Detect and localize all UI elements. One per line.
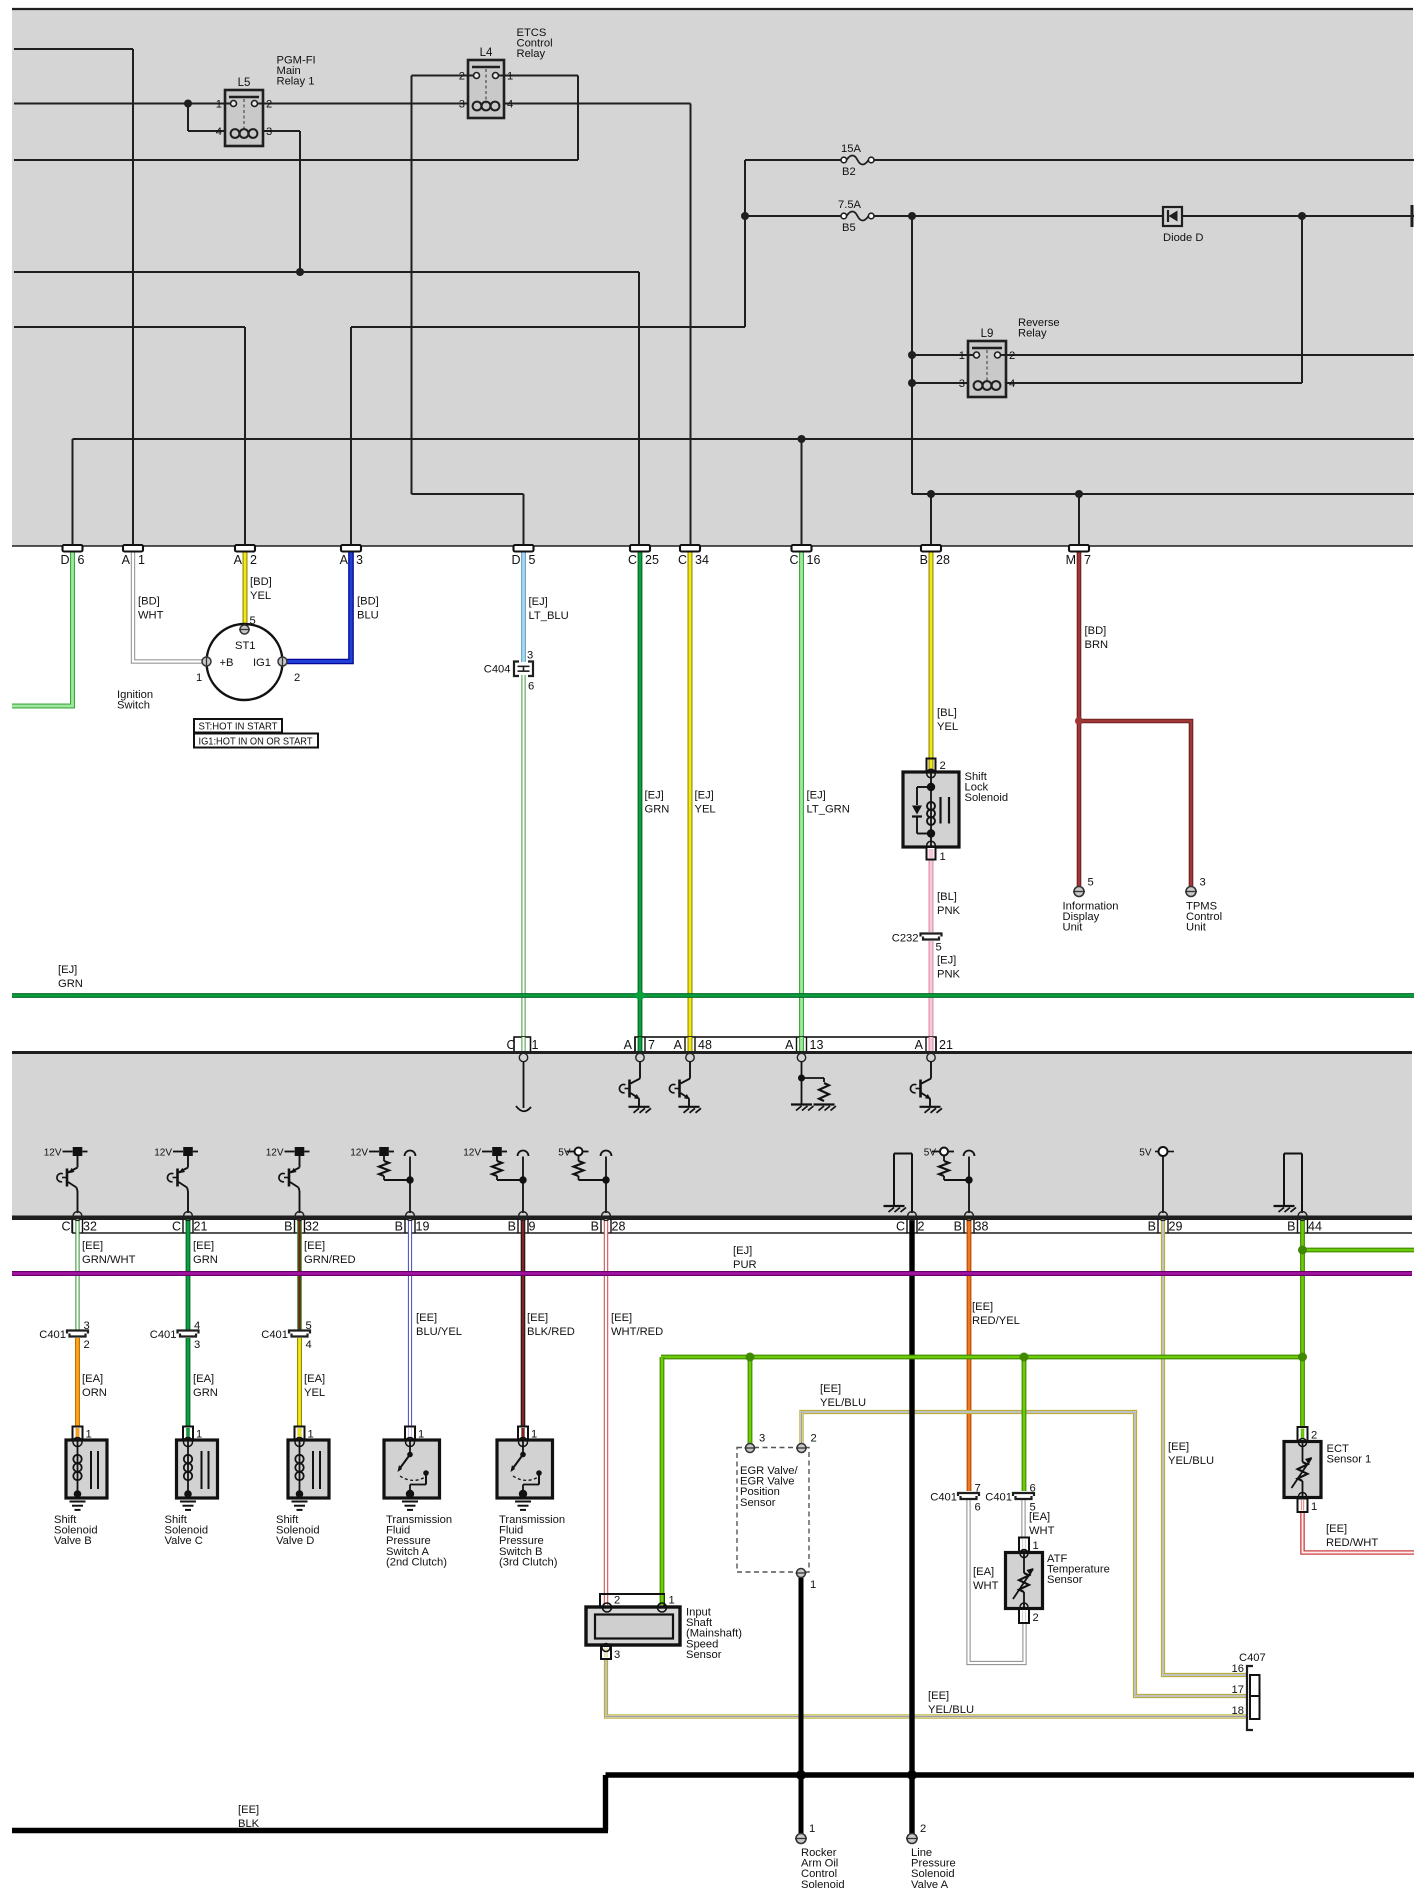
- svg-text:LT_GRN: LT_GRN: [807, 804, 850, 816]
- svg-text:5: 5: [529, 553, 536, 567]
- svg-text:[EJ]: [EJ]: [937, 955, 956, 967]
- svg-text:3: 3: [194, 1339, 200, 1351]
- svg-text:[EJ]: [EJ]: [733, 1245, 752, 1257]
- svg-text:32: 32: [305, 1220, 319, 1234]
- svg-text:Unit: Unit: [1063, 922, 1084, 934]
- svg-text:C: C: [61, 1220, 70, 1234]
- svg-text:Relay 1: Relay 1: [277, 76, 315, 88]
- svg-text:1: 1: [809, 1823, 815, 1835]
- svg-text:B5: B5: [842, 222, 856, 234]
- svg-text:2: 2: [811, 1433, 817, 1445]
- svg-text:YEL/BLU: YEL/BLU: [928, 1704, 974, 1716]
- svg-text:YEL/BLU: YEL/BLU: [1168, 1455, 1214, 1467]
- svg-text:4: 4: [194, 1320, 200, 1332]
- svg-text:C: C: [896, 1220, 905, 1234]
- svg-text:[BL]: [BL]: [937, 707, 957, 719]
- svg-text:[BD]: [BD]: [357, 596, 379, 608]
- svg-text:16: 16: [1232, 1663, 1244, 1675]
- svg-text:YEL: YEL: [250, 590, 271, 602]
- svg-text:1: 1: [196, 672, 202, 684]
- svg-text:GRN: GRN: [645, 804, 670, 816]
- svg-text:18: 18: [1232, 1705, 1244, 1717]
- svg-text:[EJ]: [EJ]: [645, 790, 664, 802]
- svg-text:IG1: IG1: [253, 657, 271, 669]
- svg-text:25: 25: [645, 553, 659, 567]
- svg-text:WHT: WHT: [138, 610, 164, 622]
- svg-text:BLK/RED: BLK/RED: [527, 1326, 575, 1338]
- svg-text:6: 6: [78, 553, 85, 567]
- svg-text:(3rd Clutch): (3rd Clutch): [499, 1556, 558, 1568]
- svg-text:12V: 12V: [44, 1148, 62, 1159]
- svg-text:D: D: [60, 553, 69, 567]
- svg-text:12V: 12V: [154, 1148, 172, 1159]
- svg-text:19: 19: [416, 1220, 430, 1234]
- svg-text:2: 2: [459, 71, 465, 83]
- svg-text:Sensor 1: Sensor 1: [1327, 1454, 1372, 1466]
- svg-text:[BD]: [BD]: [250, 576, 272, 588]
- svg-text:Sensor: Sensor: [740, 1497, 776, 1509]
- svg-text:5V: 5V: [924, 1148, 937, 1159]
- svg-text:C: C: [172, 1220, 181, 1234]
- svg-text:4: 4: [306, 1339, 312, 1351]
- svg-text:C401: C401: [150, 1329, 177, 1341]
- svg-text:Sensor: Sensor: [1047, 1574, 1083, 1586]
- svg-text:2: 2: [1311, 1430, 1317, 1442]
- svg-text:[EJ]: [EJ]: [695, 790, 714, 802]
- svg-text:Valve C: Valve C: [165, 1535, 203, 1547]
- svg-text:5: 5: [1030, 1502, 1036, 1514]
- svg-text:WHT: WHT: [1029, 1525, 1055, 1537]
- svg-text:B: B: [591, 1220, 599, 1234]
- svg-text:+B: +B: [220, 657, 234, 669]
- svg-text:[EE]: [EE]: [304, 1240, 325, 1252]
- svg-text:WHT: WHT: [973, 1580, 999, 1592]
- svg-text:Switch: Switch: [117, 700, 150, 712]
- svg-text:WHT/RED: WHT/RED: [611, 1326, 663, 1338]
- svg-text:13: 13: [810, 1038, 824, 1052]
- svg-text:GRN/RED: GRN/RED: [304, 1254, 356, 1266]
- svg-text:3: 3: [356, 553, 363, 567]
- svg-text:YEL/BLU: YEL/BLU: [820, 1397, 866, 1409]
- svg-text:3: 3: [527, 650, 533, 662]
- svg-text:C: C: [678, 553, 687, 567]
- svg-text:Valve D: Valve D: [276, 1535, 314, 1547]
- svg-text:2: 2: [266, 99, 272, 111]
- svg-text:RED/WHT: RED/WHT: [1326, 1537, 1378, 1549]
- svg-text:[EA]: [EA]: [304, 1373, 325, 1385]
- svg-text:ORN: ORN: [82, 1387, 107, 1399]
- svg-text:7.5A: 7.5A: [838, 199, 862, 211]
- svg-text:2: 2: [250, 553, 257, 567]
- svg-text:L5: L5: [238, 77, 251, 89]
- svg-text:12V: 12V: [463, 1148, 481, 1159]
- svg-text:44: 44: [1308, 1220, 1322, 1234]
- svg-text:Solenoid: Solenoid: [801, 1879, 845, 1891]
- svg-text:Unit: Unit: [1186, 922, 1207, 934]
- svg-text:[EE]: [EE]: [82, 1240, 103, 1252]
- svg-text:ST:HOT IN START: ST:HOT IN START: [199, 722, 278, 733]
- svg-text:21: 21: [939, 1038, 953, 1052]
- svg-text:15A: 15A: [841, 143, 861, 155]
- svg-text:C401: C401: [39, 1329, 66, 1341]
- svg-text:6: 6: [975, 1502, 981, 1514]
- svg-text:1: 1: [1311, 1501, 1317, 1513]
- svg-text:GRN/WHT: GRN/WHT: [82, 1254, 136, 1266]
- svg-text:2: 2: [1033, 1612, 1039, 1624]
- svg-text:17: 17: [1232, 1684, 1244, 1696]
- svg-text:BRN: BRN: [1085, 639, 1109, 651]
- svg-text:A: A: [915, 1038, 924, 1052]
- svg-text:(2nd Clutch): (2nd Clutch): [386, 1556, 447, 1568]
- svg-text:GRN: GRN: [193, 1387, 218, 1399]
- svg-text:Relay: Relay: [1018, 328, 1047, 340]
- svg-text:LT_BLU: LT_BLU: [529, 610, 569, 622]
- svg-text:3: 3: [266, 126, 272, 138]
- svg-text:[EE]: [EE]: [527, 1312, 548, 1324]
- svg-text:A: A: [785, 1038, 794, 1052]
- svg-text:B: B: [395, 1220, 403, 1234]
- svg-text:9: 9: [529, 1220, 536, 1234]
- svg-text:Solenoid: Solenoid: [965, 792, 1009, 804]
- svg-text:[EA]: [EA]: [82, 1373, 103, 1385]
- svg-text:A: A: [340, 553, 349, 567]
- svg-text:PNK: PNK: [937, 905, 961, 917]
- svg-text:2: 2: [294, 672, 300, 684]
- svg-text:4: 4: [216, 126, 222, 138]
- svg-text:B: B: [284, 1220, 292, 1234]
- svg-text:3: 3: [959, 378, 965, 390]
- svg-text:1: 1: [507, 71, 513, 83]
- svg-text:C: C: [789, 553, 798, 567]
- svg-text:2: 2: [918, 1220, 925, 1234]
- svg-text:5: 5: [250, 615, 256, 627]
- svg-text:C401: C401: [261, 1329, 288, 1341]
- svg-text:16: 16: [807, 553, 821, 567]
- svg-text:4: 4: [1009, 378, 1015, 390]
- svg-text:3: 3: [84, 1320, 90, 1332]
- svg-text:5V: 5V: [1139, 1148, 1152, 1159]
- svg-text:5: 5: [306, 1320, 312, 1332]
- svg-text:[BD]: [BD]: [1085, 625, 1107, 637]
- svg-text:C401: C401: [985, 1492, 1012, 1504]
- svg-text:[EE]: [EE]: [193, 1240, 214, 1252]
- svg-text:7: 7: [975, 1483, 981, 1495]
- svg-text:4: 4: [507, 99, 513, 111]
- svg-text:C401: C401: [930, 1492, 957, 1504]
- svg-text:[EJ]: [EJ]: [58, 964, 77, 976]
- svg-text:BLU/YEL: BLU/YEL: [416, 1326, 462, 1338]
- svg-text:GRN: GRN: [58, 978, 83, 990]
- svg-text:A: A: [674, 1038, 683, 1052]
- svg-text:1: 1: [138, 553, 145, 567]
- svg-text:2: 2: [920, 1823, 926, 1835]
- svg-text:5: 5: [936, 942, 942, 954]
- svg-text:ST1: ST1: [235, 640, 256, 652]
- svg-text:7: 7: [1084, 553, 1091, 567]
- svg-text:48: 48: [698, 1038, 712, 1052]
- svg-text:3: 3: [1200, 877, 1206, 889]
- svg-text:2: 2: [84, 1339, 90, 1351]
- svg-text:1: 1: [810, 1579, 816, 1591]
- svg-text:Relay: Relay: [517, 48, 546, 60]
- svg-text:B: B: [920, 553, 928, 567]
- svg-text:[EA]: [EA]: [973, 1566, 994, 1578]
- svg-text:6: 6: [1030, 1483, 1036, 1495]
- svg-text:A: A: [234, 553, 243, 567]
- svg-text:[EJ]: [EJ]: [529, 596, 548, 608]
- svg-text:21: 21: [194, 1220, 208, 1234]
- svg-text:[EE]: [EE]: [820, 1383, 841, 1395]
- svg-text:Sensor: Sensor: [686, 1649, 722, 1661]
- svg-text:2: 2: [1009, 350, 1015, 362]
- svg-text:[EE]: [EE]: [1168, 1441, 1189, 1453]
- svg-text:12V: 12V: [350, 1148, 368, 1159]
- svg-text:B: B: [1287, 1220, 1295, 1234]
- svg-text:M: M: [1066, 553, 1076, 567]
- svg-text:B: B: [954, 1220, 962, 1234]
- svg-text:PNK: PNK: [937, 969, 961, 981]
- svg-text:YEL: YEL: [695, 804, 716, 816]
- svg-text:[EE]: [EE]: [972, 1301, 993, 1313]
- svg-text:1: 1: [669, 1595, 675, 1607]
- svg-text:6: 6: [528, 681, 534, 693]
- svg-text:3: 3: [614, 1649, 620, 1661]
- svg-text:34: 34: [695, 553, 709, 567]
- svg-text:[EE]: [EE]: [416, 1312, 437, 1324]
- svg-text:32: 32: [83, 1220, 97, 1234]
- svg-text:Valve A: Valve A: [911, 1879, 949, 1891]
- svg-text:1: 1: [959, 350, 965, 362]
- svg-text:[EE]: [EE]: [1326, 1523, 1347, 1535]
- svg-text:3: 3: [759, 1433, 765, 1445]
- svg-text:[EE]: [EE]: [238, 1804, 259, 1816]
- svg-text:2: 2: [614, 1595, 620, 1607]
- svg-text:L4: L4: [480, 47, 493, 59]
- svg-text:1: 1: [216, 99, 222, 111]
- svg-text:29: 29: [1169, 1220, 1183, 1234]
- svg-text:38: 38: [975, 1220, 989, 1234]
- svg-text:B2: B2: [842, 166, 856, 178]
- svg-text:[EA]: [EA]: [193, 1373, 214, 1385]
- svg-text:1: 1: [1033, 1540, 1039, 1552]
- svg-text:GRN: GRN: [193, 1254, 218, 1266]
- svg-text:BLK: BLK: [238, 1818, 260, 1830]
- svg-text:[BD]: [BD]: [138, 596, 160, 608]
- svg-text:Diode D: Diode D: [1163, 232, 1203, 244]
- svg-text:PUR: PUR: [733, 1259, 757, 1271]
- svg-text:28: 28: [612, 1220, 626, 1234]
- svg-text:7: 7: [648, 1038, 655, 1052]
- svg-text:B: B: [1148, 1220, 1156, 1234]
- svg-text:5V: 5V: [558, 1148, 571, 1159]
- svg-text:[EE]: [EE]: [611, 1312, 632, 1324]
- svg-text:[BL]: [BL]: [937, 891, 957, 903]
- svg-text:YEL: YEL: [937, 721, 958, 733]
- svg-text:BLU: BLU: [357, 610, 379, 622]
- svg-text:YEL: YEL: [304, 1387, 325, 1399]
- svg-text:2: 2: [940, 760, 946, 772]
- svg-text:C: C: [506, 1038, 515, 1052]
- svg-text:1: 1: [940, 851, 946, 863]
- svg-text:A: A: [624, 1038, 633, 1052]
- svg-text:RED/YEL: RED/YEL: [972, 1315, 1020, 1327]
- svg-text:B: B: [508, 1220, 516, 1234]
- svg-text:C232: C232: [892, 933, 919, 945]
- svg-text:12V: 12V: [266, 1148, 284, 1159]
- svg-text:IG1:HOT IN ON OR START: IG1:HOT IN ON OR START: [199, 737, 313, 748]
- svg-text:3: 3: [459, 99, 465, 111]
- svg-text:[EE]: [EE]: [928, 1690, 949, 1702]
- svg-text:C404: C404: [484, 664, 511, 676]
- svg-text:[EJ]: [EJ]: [807, 790, 826, 802]
- svg-text:D: D: [511, 553, 520, 567]
- svg-text:L9: L9: [981, 328, 994, 340]
- svg-text:5: 5: [1088, 877, 1094, 889]
- svg-text:Valve B: Valve B: [54, 1535, 92, 1547]
- svg-text:28: 28: [936, 553, 950, 567]
- svg-text:A: A: [122, 553, 131, 567]
- svg-text:C: C: [628, 553, 637, 567]
- svg-text:1: 1: [532, 1038, 539, 1052]
